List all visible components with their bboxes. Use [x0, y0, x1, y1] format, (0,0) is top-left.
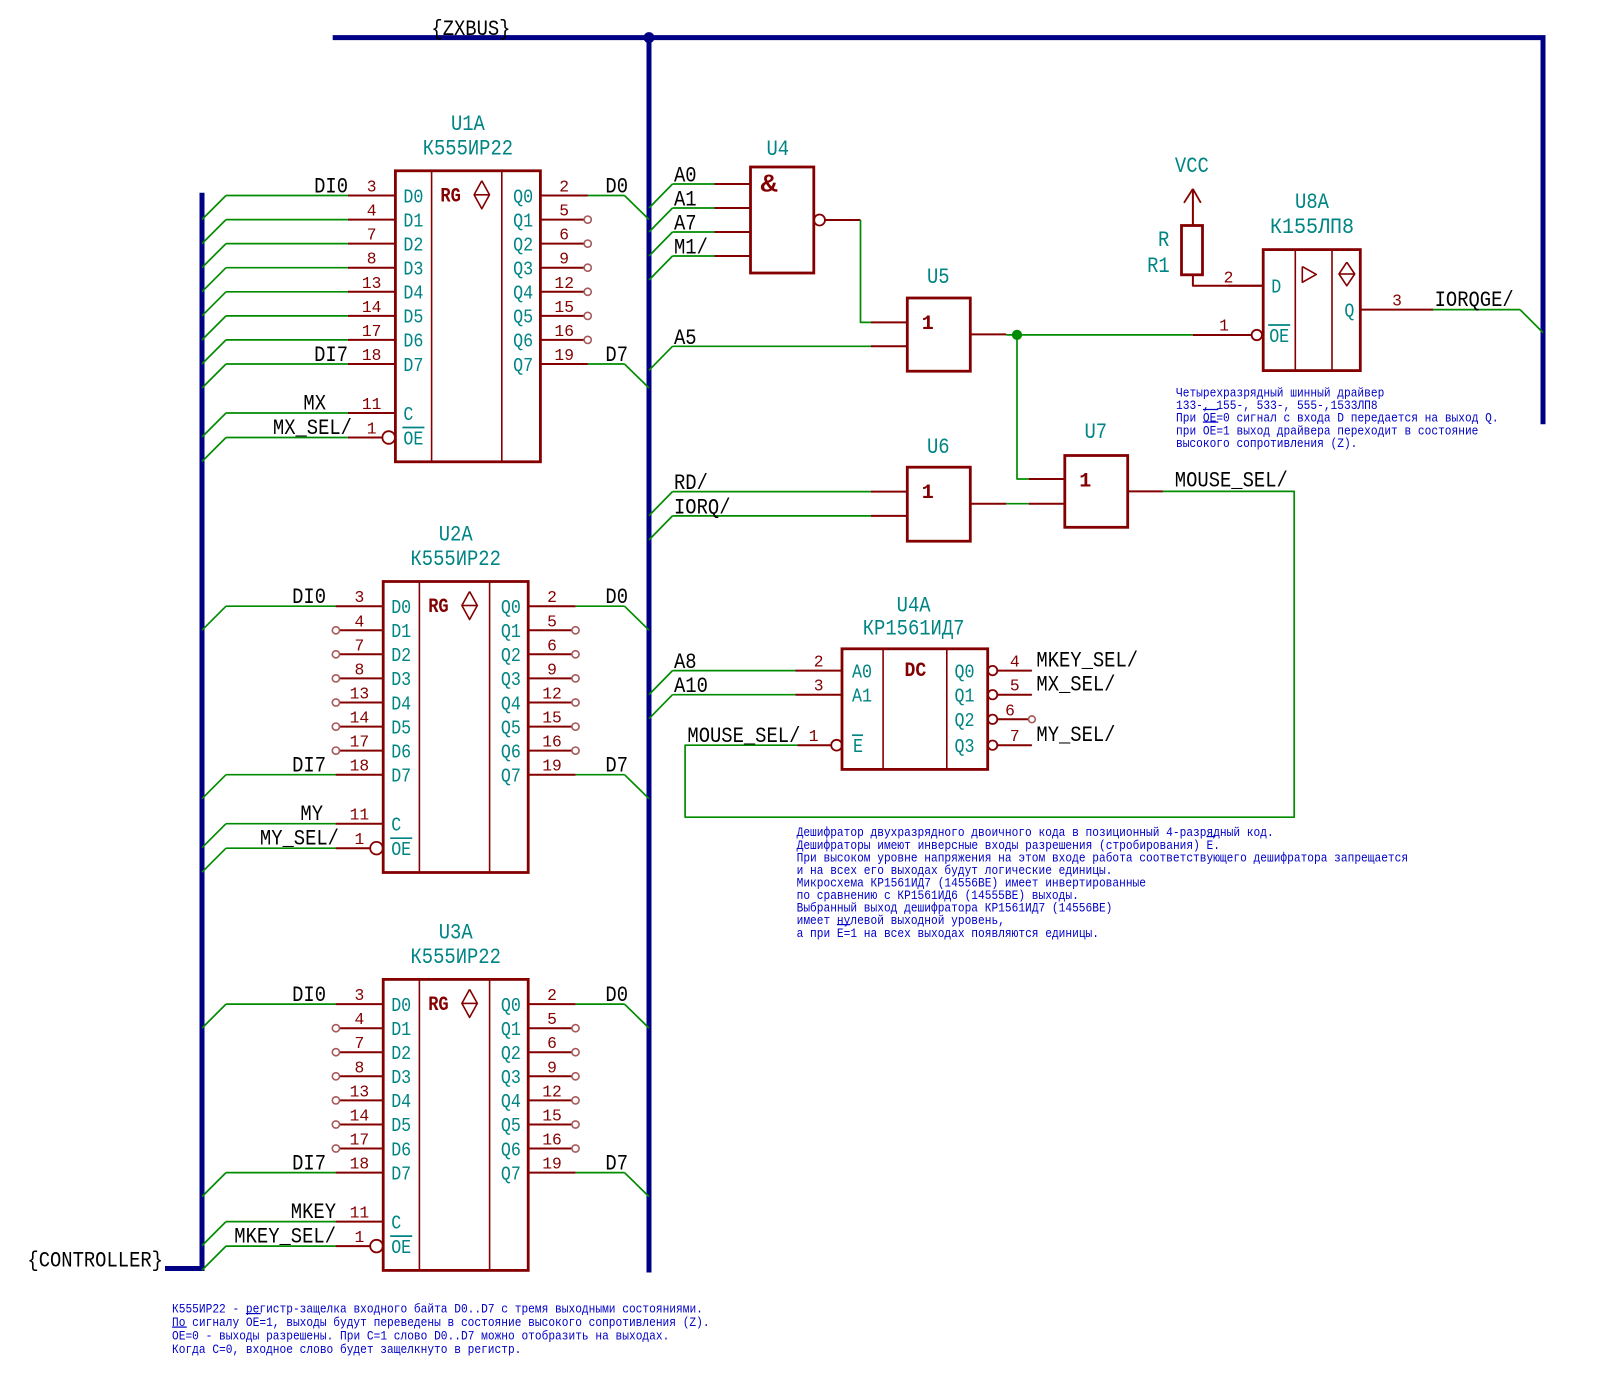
svg-text:Q2: Q2 [955, 710, 975, 732]
reference U5 [927, 265, 950, 290]
svg-text:{ZXBUS}: {ZXBUS} [431, 17, 510, 42]
U1A pin 2 Q0 [513, 178, 588, 209]
svg-text:MY_SEL/: MY_SEL/ [1036, 723, 1115, 748]
U1A pin 13 D4 [348, 274, 424, 305]
U3A pin 12 Q4 (unconnected) [501, 1082, 579, 1113]
buffer U7 body [1065, 456, 1128, 528]
U4 inverted output pin [814, 215, 861, 226]
svg-text:2: 2 [814, 653, 824, 672]
svg-text:D0: D0 [605, 585, 628, 610]
svg-text:1: 1 [355, 1228, 365, 1247]
svg-text:Q2: Q2 [513, 234, 533, 256]
svg-text:D0: D0 [605, 983, 628, 1008]
wire bus to U4 A0, node A0 [649, 164, 715, 209]
svg-text:MKEY: MKEY [291, 1200, 336, 1225]
U2A pin 4 D1 (unconnected) [332, 612, 411, 643]
svg-text:3: 3 [355, 986, 365, 1005]
svg-text:IORQ/: IORQ/ [674, 495, 731, 520]
U7 input pin 2 [1029, 503, 1065, 505]
buffer U6 body [907, 467, 970, 541]
U1A pin 3 D0 [348, 178, 424, 209]
svg-text:U2A: U2A [439, 523, 474, 548]
svg-text:D0: D0 [391, 597, 411, 619]
wire bus to U2A OE, node MY_SEL/ [202, 827, 339, 873]
wire bus to U3A OE, node MKEY_SEL/ [202, 1225, 336, 1271]
svg-text:Q7: Q7 [513, 355, 533, 377]
wire bus to U4 A7, node A7 [649, 212, 715, 257]
svg-text:Q1: Q1 [501, 621, 521, 643]
svg-text:R1: R1 [1147, 254, 1170, 279]
U3A pin 5 Q1 (unconnected) [501, 1010, 579, 1041]
svg-text:U7: U7 [1085, 420, 1108, 445]
svg-text:C: C [403, 404, 413, 426]
svg-text:4: 4 [367, 202, 377, 221]
register U1A K555IR22 body [395, 171, 540, 462]
U4A pin 1 E enable input (inverted) [798, 727, 864, 758]
U3A pin 1 OE (inverted) [336, 1228, 413, 1259]
U1A pin 6 Q2 (unconnected) [513, 226, 591, 257]
svg-text:5: 5 [547, 612, 557, 631]
wire U1A Q7 to bus, node D7 [588, 343, 649, 388]
svg-text:Q: Q [1344, 300, 1354, 322]
svg-text:К555ИР22: К555ИР22 [411, 945, 501, 970]
U1A pin 8 D3 [348, 250, 424, 281]
U2A pin 3 D0 [336, 588, 412, 619]
svg-text:9: 9 [547, 660, 557, 679]
svg-text:A8: A8 [674, 650, 697, 675]
svg-text:Q6: Q6 [501, 741, 521, 763]
wire U2A Q7 to bus, node D7 [576, 754, 649, 799]
U3A pin 3 D0 [336, 986, 412, 1017]
svg-text:U4A: U4A [897, 594, 932, 619]
svg-text:D0: D0 [391, 995, 411, 1017]
svg-text:DI7: DI7 [292, 754, 326, 779]
svg-text:15: 15 [542, 1107, 562, 1126]
svg-text:18: 18 [350, 757, 370, 776]
reference R1 [1147, 254, 1170, 279]
svg-text:5: 5 [1010, 677, 1020, 696]
register U2A K555IR22 body [383, 582, 528, 873]
svg-text:OE: OE [1269, 326, 1289, 348]
wire U3A Q7 to bus, node D7 [576, 1152, 649, 1197]
svg-text:D6: D6 [403, 331, 423, 353]
svg-text:D2: D2 [391, 645, 411, 667]
svg-text:D2: D2 [391, 1043, 411, 1065]
svg-text:1: 1 [367, 420, 377, 439]
U4A pin 4 Q0 output (inverted) [955, 653, 1032, 684]
svg-text:MY: MY [300, 802, 323, 827]
svg-text:19: 19 [554, 346, 574, 365]
svg-text:1: 1 [922, 313, 934, 336]
U3A pin 6 Q2 (unconnected) [501, 1034, 579, 1065]
svg-text:RG: RG [428, 994, 449, 1017]
svg-text:D7: D7 [605, 343, 628, 368]
wire bus to U1A D3 [202, 268, 348, 292]
svg-text:D5: D5 [391, 1115, 411, 1137]
svg-text:DI0: DI0 [292, 983, 326, 1008]
svg-text:14: 14 [362, 298, 382, 317]
svg-text:&: & [761, 170, 778, 200]
U4 input pin M1/ [715, 255, 751, 257]
svg-text:4: 4 [355, 612, 365, 631]
svg-text:D0: D0 [605, 175, 628, 200]
U1A pin 1 OE (inverted) [348, 420, 425, 451]
reference U4 [767, 137, 790, 162]
svg-text:высокого сопротивления (Z).: высокого сопротивления (Z). [1176, 437, 1357, 451]
svg-text:D5: D5 [391, 717, 411, 739]
svg-text:{CONTROLLER}: {CONTROLLER} [27, 1249, 163, 1274]
reference U7 [1085, 420, 1108, 445]
node MY_SEL/ [1036, 723, 1115, 748]
svg-text:D0: D0 [403, 186, 423, 208]
wire bus to U1A OE, node MX_SEL/ [202, 416, 352, 462]
U6 input pin 2 (IORQ/) [871, 515, 907, 517]
svg-text:13: 13 [350, 1082, 370, 1101]
svg-text:MX_SEL/: MX_SEL/ [1036, 673, 1115, 698]
svg-text:9: 9 [559, 250, 569, 269]
svg-text:U1A: U1A [451, 112, 486, 137]
svg-text:5: 5 [547, 1010, 557, 1029]
U4 input pin A1 [715, 207, 751, 209]
svg-text:MKEY_SEL/: MKEY_SEL/ [1036, 649, 1138, 674]
wire bus to U1A D0 [202, 196, 348, 220]
reference U8A [1295, 190, 1330, 215]
svg-text:3: 3 [1392, 292, 1402, 311]
node DI0 [314, 175, 348, 200]
U3A pin 15 Q5 (unconnected) [501, 1107, 579, 1138]
wire bus to U2A D7 [202, 775, 336, 799]
svg-text:Q4: Q4 [501, 693, 521, 715]
svg-text:RG: RG [440, 185, 461, 208]
svg-text:19: 19 [542, 757, 562, 776]
svg-text:16: 16 [542, 1131, 562, 1150]
svg-text:D2: D2 [403, 234, 423, 256]
svg-text:U4: U4 [767, 137, 790, 162]
svg-text:DI0: DI0 [292, 585, 326, 610]
svg-text:Q0: Q0 [513, 186, 533, 208]
svg-text:Q6: Q6 [513, 331, 533, 353]
U3A pin 8 D3 (unconnected) [332, 1058, 411, 1089]
svg-text:D7: D7 [391, 766, 411, 788]
wire U5 output to U8A OE [1006, 334, 1192, 336]
label ZXBUS [431, 17, 510, 42]
node DI0 [292, 983, 326, 1008]
svg-text:MX: MX [303, 392, 326, 417]
U2A pin 19 Q7 [501, 757, 576, 788]
svg-text:1: 1 [355, 830, 365, 849]
U3A pin 2 Q0 [501, 986, 576, 1017]
svg-text:DI7: DI7 [292, 1152, 326, 1177]
svg-text:D6: D6 [391, 741, 411, 763]
svg-text:U6: U6 [927, 435, 950, 460]
U2A pin 11 C clock [336, 806, 402, 837]
buffer U5 body [907, 298, 970, 371]
svg-text:9: 9 [547, 1058, 557, 1077]
svg-text:D3: D3 [391, 669, 411, 691]
U8A pin 2 D input [1224, 269, 1282, 299]
U2A pin 17 D6 (unconnected) [332, 733, 411, 764]
node DI7 [292, 1152, 326, 1177]
svg-text:Q6: Q6 [501, 1139, 521, 1161]
svg-text:Q3: Q3 [501, 1067, 521, 1089]
U4 input pin A0 [715, 183, 751, 185]
svg-text:Q2: Q2 [501, 645, 521, 667]
U3A pin 11 C clock [336, 1204, 402, 1235]
svg-text:11: 11 [350, 806, 370, 825]
U1A pin 12 Q4 (unconnected) [513, 274, 591, 305]
reference U1A [451, 112, 486, 137]
svg-text:Q1: Q1 [501, 1019, 521, 1041]
U6 output pin [970, 503, 1006, 505]
U2A pin 6 Q2 (unconnected) [501, 636, 579, 667]
bus CONTROLLER bottom stub [165, 1266, 205, 1271]
svg-text:17: 17 [362, 322, 382, 341]
bus ZXBUS right vertical [1541, 38, 1546, 425]
U1A pin 5 Q1 (unconnected) [513, 202, 591, 233]
svg-text:A1: A1 [674, 188, 697, 213]
svg-text:1: 1 [809, 727, 819, 746]
svg-text:14: 14 [350, 709, 370, 728]
svg-text:RD/: RD/ [674, 471, 708, 496]
wire U2A Q0 to bus, node D0 [576, 585, 649, 630]
svg-text:MOUSE_SEL/: MOUSE_SEL/ [1175, 469, 1288, 494]
svg-text:D: D [1271, 277, 1281, 299]
bus ZXBUS top horizontal [333, 35, 1546, 40]
U1A pin 19 Q7 [513, 346, 588, 377]
svg-text:D6: D6 [391, 1139, 411, 1161]
svg-text:6: 6 [547, 636, 557, 655]
svg-text:Q7: Q7 [501, 1163, 521, 1185]
node DI7 [314, 343, 348, 368]
wire bus to U3A C, node ('MKEY', 336) [202, 1200, 336, 1246]
svg-text:U3A: U3A [439, 920, 474, 945]
svg-text:E: E [853, 736, 863, 758]
U8A pin 3 Q output [1344, 292, 1433, 323]
svg-text:12: 12 [542, 1082, 562, 1101]
wire U4 output to U5 input [861, 220, 872, 322]
wire bus to U1A C, node ('MX', 326) [202, 392, 348, 438]
U2A pin 5 Q1 (unconnected) [501, 612, 579, 643]
svg-text:13: 13 [350, 685, 370, 704]
node DI7 [292, 754, 326, 779]
svg-text:A7: A7 [674, 212, 697, 237]
svg-text:D1: D1 [403, 210, 423, 232]
wire bus to U4A A1, node A10 [649, 674, 796, 719]
svg-text:R: R [1158, 228, 1169, 253]
resistor R1 [1182, 226, 1203, 275]
U4A pin 3 A1 input [796, 677, 873, 708]
svg-text:RG: RG [428, 596, 449, 619]
U2A pin 15 Q5 (unconnected) [501, 709, 579, 740]
svg-text:Q3: Q3 [501, 669, 521, 691]
svg-text:КР1561ИД7: КР1561ИД7 [863, 617, 965, 642]
U1A pin 11 C clock [348, 395, 414, 426]
wire junction down to U7 input [1017, 335, 1029, 479]
svg-text:A10: A10 [674, 674, 708, 699]
U2A pin 14 D5 (unconnected) [332, 709, 411, 740]
svg-text:2: 2 [547, 588, 557, 607]
svg-text:DI0: DI0 [314, 175, 348, 200]
wire bus to U1A D1 [202, 220, 348, 244]
svg-text:К155ЛП8: К155ЛП8 [1270, 215, 1354, 240]
reference U2A [439, 523, 474, 548]
svg-text:Q5: Q5 [501, 717, 521, 739]
svg-text:По сигналу ОЕ=1, выходы будут: По сигналу ОЕ=1, выходы будут переведены… [172, 1316, 710, 1330]
svg-text:Q3: Q3 [955, 736, 975, 758]
svg-text:Q4: Q4 [501, 1091, 521, 1113]
svg-text:14: 14 [350, 1107, 370, 1126]
svg-text:а при Е=1 на всех выходах появ: а при Е=1 на всех выходах появляются еди… [797, 927, 1099, 941]
svg-text:D4: D4 [391, 1091, 411, 1113]
svg-text:11: 11 [362, 395, 382, 414]
node MX_SEL/ [1036, 673, 1115, 698]
U4A pin 2 A0 input [796, 653, 873, 684]
wire bus to U1A D4 [202, 292, 348, 316]
svg-text:К555ИР22: К555ИР22 [423, 136, 513, 161]
U3A pin 19 Q7 [501, 1155, 576, 1186]
svg-text:7: 7 [367, 226, 377, 245]
bus ZXBUS central vertical [647, 38, 652, 1273]
node MKEY_SEL/ [1036, 649, 1138, 674]
value K555IR22 of U1A [423, 136, 513, 161]
svg-text:7: 7 [355, 1034, 365, 1053]
U7 input pin 1 [1029, 478, 1065, 480]
U1A pin 18 D7 [348, 346, 424, 377]
svg-text:Q5: Q5 [513, 307, 533, 329]
svg-text:D5: D5 [403, 307, 423, 329]
svg-text:17: 17 [350, 1131, 370, 1150]
wire bus to U4 A1, node A1 [649, 188, 715, 233]
svg-text:U8A: U8A [1295, 190, 1330, 215]
wire bus to U3A D0 [202, 1004, 336, 1028]
label CONTROLLER [27, 1249, 163, 1274]
svg-text:A0: A0 [674, 164, 697, 189]
value KR1561ID7 [863, 617, 965, 642]
wire R1 to U8A D pin [1193, 275, 1263, 286]
U4A pin 7 Q3 output (inverted) [955, 727, 1032, 758]
svg-text:1: 1 [922, 482, 934, 505]
wire bus to U1A D5 [202, 316, 348, 340]
svg-text:ОЕ=0 - выходы разрешены. При С: ОЕ=0 - выходы разрешены. При С=1 слово D… [172, 1329, 669, 1343]
U1A pin 7 D2 [348, 226, 424, 257]
wire bus to U6, node IORQ/ [649, 495, 871, 540]
value K555IR22 of U2A [411, 547, 501, 572]
svg-text:15: 15 [542, 709, 562, 728]
wire bus to U4 M1/, node M1/ [649, 236, 715, 281]
power symbol VCC [1175, 154, 1209, 226]
U5 output pin [970, 333, 1006, 335]
svg-text:D4: D4 [391, 693, 411, 715]
svg-text:18: 18 [362, 346, 382, 365]
svg-text:13: 13 [362, 274, 382, 293]
junction U5 output node [1012, 330, 1021, 339]
svg-text:2: 2 [1224, 269, 1234, 288]
value K155LP8 [1270, 215, 1354, 240]
U2A pin 18 D7 [336, 757, 412, 788]
svg-text:Q4: Q4 [513, 283, 533, 305]
svg-text:OE: OE [391, 1237, 411, 1259]
svg-text:1: 1 [1219, 317, 1229, 336]
svg-text:C: C [391, 815, 401, 837]
U2A pin 8 D3 (unconnected) [332, 660, 411, 691]
value R of R1 [1158, 228, 1169, 253]
svg-text:C: C [391, 1212, 401, 1234]
svg-text:16: 16 [554, 322, 574, 341]
U3A pin 16 Q6 (unconnected) [501, 1131, 579, 1162]
U2A pin 13 D4 (unconnected) [332, 685, 411, 716]
reference U4A [897, 594, 932, 619]
value K555IR22 of U3A [411, 945, 501, 970]
wire bus to U2A C, node ('MY', 323) [202, 802, 336, 848]
label MOUSE_SEL/ at U4A E input [687, 724, 800, 749]
svg-text:К555ИР22: К555ИР22 [411, 547, 501, 572]
svg-text:6: 6 [547, 1034, 557, 1053]
svg-text:19: 19 [542, 1155, 562, 1174]
U3A pin 18 D7 [336, 1155, 412, 1186]
note text about K555IR22 register [172, 1302, 710, 1357]
svg-text:MY_SEL/: MY_SEL/ [260, 827, 339, 852]
U1A pin 9 Q3 (unconnected) [513, 250, 591, 281]
svg-text:A1: A1 [852, 686, 872, 708]
U8A pin 1 OE input (inverted) [1193, 317, 1291, 348]
wire bus to U6, node RD/ [649, 471, 871, 516]
U4 input pin A7 [715, 231, 751, 233]
wire U1A Q0 to bus, node D0 [588, 175, 649, 220]
U1A pin 14 D5 [348, 298, 424, 329]
svg-text:5: 5 [559, 202, 569, 221]
svg-text:OE: OE [391, 839, 411, 861]
svg-text:6: 6 [559, 226, 569, 245]
U7 output pin [1128, 490, 1163, 492]
svg-text:Q1: Q1 [955, 686, 975, 708]
label MOUSE_SEL/ at U7 output [1175, 469, 1288, 494]
svg-text:Q5: Q5 [501, 1115, 521, 1137]
wire U3A Q0 to bus, node D0 [576, 983, 649, 1028]
wire U8A Q to right bus, node IORQGE/ [1433, 288, 1543, 333]
decoder U4A KR1561ID7 body [842, 649, 988, 770]
U1A pin 17 D6 [348, 322, 424, 353]
reference U6 [927, 435, 950, 460]
svg-text:3: 3 [367, 178, 377, 197]
U3A pin 7 D2 (unconnected) [332, 1034, 411, 1065]
U2A pin 1 OE (inverted) [336, 830, 413, 861]
wire bus to U4A A0, node A8 [649, 650, 796, 695]
svg-text:3: 3 [355, 588, 365, 607]
svg-text:MKEY_SEL/: MKEY_SEL/ [234, 1225, 336, 1250]
svg-text:D1: D1 [391, 1019, 411, 1041]
svg-text:2: 2 [547, 986, 557, 1005]
U3A pin 4 D1 (unconnected) [332, 1010, 411, 1041]
svg-text:A5: A5 [674, 326, 697, 351]
bus junction ZXBUS [644, 33, 654, 43]
U1A pin 16 Q6 (unconnected) [513, 322, 591, 353]
svg-text:3: 3 [814, 677, 824, 696]
svg-text:M1/: M1/ [674, 236, 708, 261]
note text about K155LP8 bus driver [1176, 387, 1499, 451]
svg-text:D7: D7 [605, 754, 628, 779]
svg-text:D3: D3 [403, 259, 423, 281]
svg-text:MX_SEL/: MX_SEL/ [273, 416, 352, 441]
U5 input pin 1 (from U4) [871, 321, 907, 323]
bus driver U8A K155LP8 body [1263, 250, 1360, 371]
U2A pin 2 Q0 [501, 588, 576, 619]
note text about KR1561ID7 decoder [797, 826, 1409, 941]
U1A pin 15 Q5 (unconnected) [513, 298, 591, 329]
svg-text:MOUSE_SEL/: MOUSE_SEL/ [687, 724, 800, 749]
svg-text:OE: OE [403, 428, 423, 450]
svg-text:8: 8 [355, 1058, 365, 1077]
svg-text:A0: A0 [852, 661, 872, 683]
